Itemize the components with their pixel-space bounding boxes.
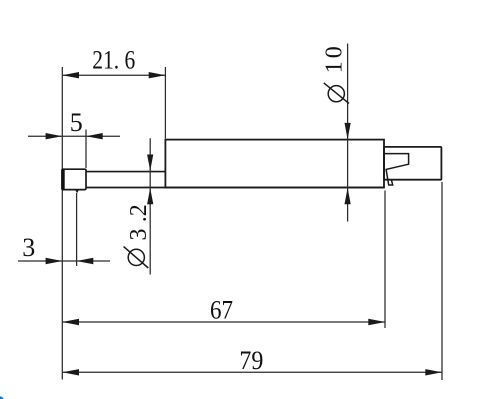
dimension 67 arrow left: [62, 319, 79, 325]
dimension 79 arrow left: [62, 369, 79, 375]
tip block thick left edge: [61, 170, 64, 188]
dimension 5 line with outside tails: [28, 135, 120, 137]
dimension dia10 arrow lower (points up to body bottom): [345, 188, 351, 204]
dimension 5 extension line: [85, 130, 87, 169]
dimension 5 arrow left (outside): [46, 133, 63, 139]
dimension 3 line with outside tails: [18, 260, 110, 262]
dimension dia10 phi symbol: [324, 83, 349, 104]
latch lever detail inside connector: [385, 154, 409, 185]
dimension 3 text: [22, 233, 35, 262]
svg-text:21. 6: 21. 6: [92, 46, 135, 75]
dimension 79 text: [239, 346, 263, 375]
dimension 21.6 extension line right: [164, 67, 166, 139]
body (main cylinder outline): [165, 140, 384, 188]
blue corner mark: [0, 396, 4, 399]
dimension dia3.2 line: [149, 138, 151, 274]
stylus rod / body bottom line: [86, 187, 384, 189]
dimension dia3.2 text: [126, 204, 152, 240]
dimension 21.6 arrow left: [62, 72, 79, 78]
dimension 79 arrow right: [425, 369, 442, 375]
dimension dia10 arrow upper (points down to body top): [345, 123, 351, 139]
dimension dia3.2 phi symbol: [124, 247, 149, 268]
dimension dia10 text: [322, 46, 348, 73]
svg-text:79: 79: [239, 346, 263, 375]
dimension 79 line: [62, 371, 442, 373]
dimension 67 line: [62, 321, 385, 323]
extension line left (common datum at x=62.3): [61, 67, 63, 380]
svg-text:1: 1: [322, 61, 348, 73]
dimension 5 arrow right (outside): [86, 133, 103, 139]
dimension 67 text: [210, 296, 233, 325]
tip block (probe tip outline): [62, 169, 86, 189]
svg-text:3: 3: [126, 229, 152, 241]
connector (rear cap outline): [384, 147, 441, 180]
dimension 67 extension line right: [384, 191, 386, 329]
svg-text:67: 67: [210, 296, 233, 325]
dimension dia3.2 arrow upper (points down to rod top): [147, 155, 153, 171]
dimension dia3.2 arrow lower (points up to rod bottom): [147, 188, 153, 204]
dimension 21.6 line: [62, 74, 165, 76]
svg-text:3: 3: [22, 233, 35, 262]
stylus rod top line: [86, 171, 165, 173]
svg-text:0: 0: [322, 46, 348, 58]
tip bottom notch: [74, 189, 79, 193]
svg-text:5: 5: [70, 108, 83, 137]
dimension 67 arrow right: [368, 319, 385, 325]
dimension 3 arrow left (outside): [46, 258, 63, 264]
dimension 21.6 text: [92, 46, 135, 75]
dimension 3 extension line: [76, 193, 78, 266]
dimension 3 arrow right (outside): [77, 258, 94, 264]
dimension 5 text: [70, 108, 83, 137]
svg-text:2: 2: [126, 204, 152, 216]
dimension dia10 line: [347, 44, 349, 222]
dimension 21.6 arrow right: [149, 72, 166, 78]
dimension 79 extension line right: [441, 182, 443, 380]
